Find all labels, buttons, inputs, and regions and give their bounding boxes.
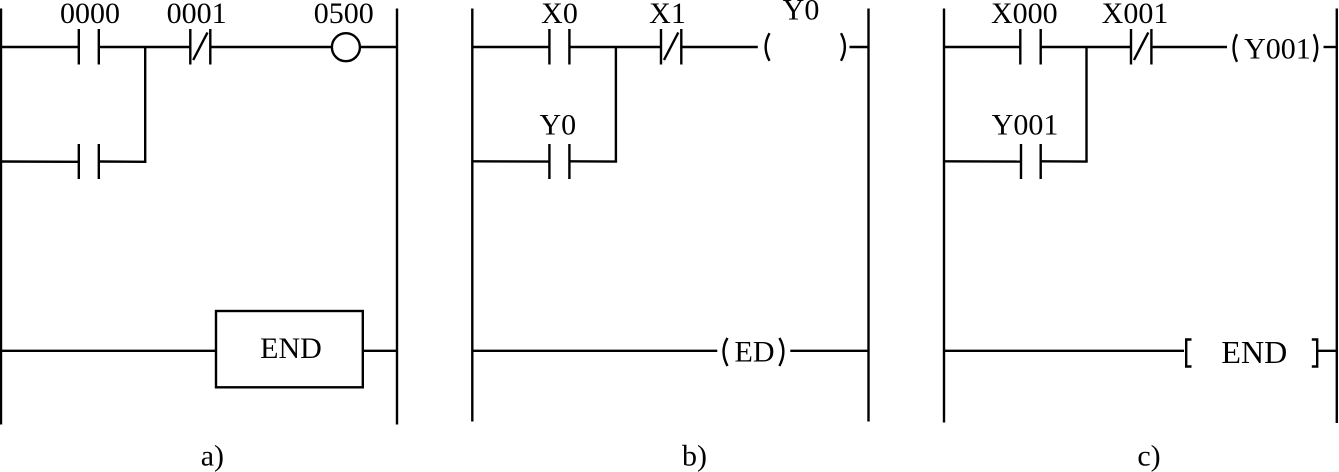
wire rung1a segment right (panel a)	[210, 46, 331, 48]
wire branch rung right (panel a)	[99, 160, 147, 163]
wire coil-to-rail (panel a)	[360, 46, 397, 48]
wire rung1b segment left (panel b)	[472, 46, 549, 48]
left power rail (panel c)	[943, 9, 945, 423]
contact 0001 (NC contact, panel a)	[190, 29, 210, 65]
svg-text:0000: 0000	[60, 0, 120, 30]
contact Y0 (NO contact, panel b)	[549, 144, 569, 179]
wire rung1b segment right (panel b)	[681, 46, 758, 48]
contact X1 (NC contact, panel b)	[661, 29, 681, 65]
END box (panel a)	[216, 311, 363, 387]
svg-text:END: END	[260, 332, 322, 365]
svg-text:X000: X000	[991, 0, 1058, 30]
wire rung1a segment middle (panel a)	[99, 46, 191, 48]
contact X001 (NC contact, panel c)	[1131, 29, 1151, 65]
left power rail (panel a)	[0, 9, 2, 425]
wire coilY0-to-rail (panel b)	[850, 46, 869, 48]
contact branch unnamed (NO contact, panel a)	[79, 144, 99, 179]
coil Y0 left parenthesis (panel b)	[766, 33, 770, 61]
wire branch junction vertical (panel a)	[144, 47, 146, 162]
wire end rung right (panel a)	[363, 350, 397, 352]
right power rail (panel b)	[867, 9, 869, 422]
svg-text:a): a)	[201, 440, 224, 472]
coil Y001 left parenthesis (panel c)	[1234, 34, 1237, 62]
svg-text:b): b)	[682, 440, 707, 472]
contact Y001 (NO contact, panel c)	[1021, 144, 1041, 179]
right power rail (panel a)	[396, 9, 398, 425]
svg-text:END: END	[1221, 334, 1287, 370]
svg-text:Y001: Y001	[1244, 32, 1311, 65]
wire ED rung right (panel b)	[790, 350, 868, 352]
wire branch rung left (panel b)	[472, 160, 549, 163]
right power rail (panel c)	[1336, 9, 1338, 424]
wire ED rung left (panel b)	[472, 350, 717, 352]
wire rung1c segment middle (panel c)	[1041, 46, 1131, 48]
svg-text:Y0: Y0	[783, 0, 820, 27]
svg-text:c): c)	[1137, 440, 1160, 472]
END right bracket (panel c)	[1312, 340, 1317, 367]
wire branch rung right (panel b)	[569, 160, 617, 163]
svg-text:X0: X0	[541, 0, 578, 30]
wire branch rung left (panel c)	[944, 160, 1021, 163]
wire end rung left (panel a)	[0, 350, 216, 352]
left power rail (panel b)	[471, 9, 473, 422]
wire rung1b segment middle (panel b)	[569, 46, 661, 48]
wire branch junction vertical (panel c)	[1085, 47, 1087, 162]
contact X000 (NO contact, panel c)	[1020, 29, 1040, 65]
svg-text:X001: X001	[1102, 0, 1169, 30]
wire branch rung right (panel c)	[1041, 160, 1088, 163]
wire end rung left (panel c)	[944, 350, 1184, 352]
coil Y0 right parenthesis (panel b)	[841, 33, 845, 61]
wire end rung right (panel c)	[1318, 350, 1337, 352]
svg-text:0001: 0001	[167, 0, 227, 30]
END left bracket (panel c)	[1186, 340, 1191, 367]
wire rung1c segment left (panel c)	[944, 46, 1020, 48]
coil ED left parenthesis (panel b)	[724, 338, 728, 366]
wire rung1a segment left (panel a)	[0, 46, 79, 48]
svg-text:Y0: Y0	[539, 109, 576, 142]
svg-text:X1: X1	[649, 0, 686, 30]
svg-text:0500: 0500	[314, 0, 374, 30]
wire branch junction vertical (panel b)	[615, 47, 617, 162]
wire rung1c segment right (panel c)	[1151, 46, 1227, 48]
svg-text:ED: ED	[735, 336, 775, 369]
wire coilY001-to-rail (panel c)	[1324, 46, 1337, 48]
wire branch rung left (panel a)	[0, 160, 79, 163]
coil ED right parenthesis (panel b)	[779, 338, 783, 366]
contact X0 (NO contact, panel b)	[549, 29, 569, 65]
coil 0500 (circle coil, panel a)	[332, 33, 360, 61]
contact 0000 (NO contact, panel a)	[79, 29, 99, 65]
svg-text:Y001: Y001	[992, 109, 1059, 142]
coil Y001 right parenthesis (panel c)	[1314, 34, 1317, 62]
